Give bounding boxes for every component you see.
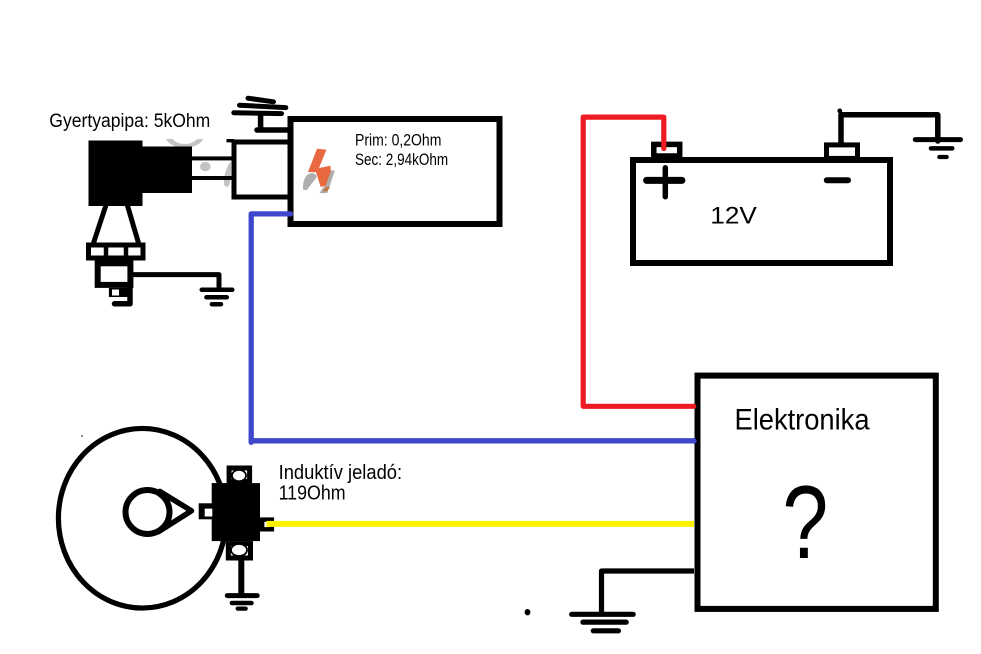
wire: blue coil to Elektronika bbox=[251, 214, 694, 441]
spark plug tip block bbox=[109, 288, 128, 297]
svg-text:Elektronika: Elektronika bbox=[735, 404, 871, 437]
wire: cap to coil terminal (bottom) bbox=[190, 176, 233, 180]
Elektronika box bbox=[698, 376, 936, 609]
flywheel magnet teardrop: circle bbox=[126, 490, 170, 534]
flywheel circle bbox=[58, 428, 226, 608]
spark plug tip notch bbox=[112, 290, 119, 296]
wire: sensor to ground bbox=[238, 558, 244, 594]
spark plug insulator left leg bbox=[94, 205, 107, 243]
svg-text:Induktív jeladó:: Induktív jeladó: bbox=[279, 461, 403, 484]
hex nut divider 2 bbox=[124, 244, 129, 258]
spark scribble horizontal to coil bbox=[257, 127, 290, 133]
spark plug cap (block B) bbox=[141, 147, 192, 194]
spark scribble stroke 3 bbox=[234, 110, 282, 116]
sensor top tab bbox=[229, 468, 250, 482]
sensor bottom tab bbox=[228, 544, 250, 558]
battery + terminal bbox=[654, 144, 680, 156]
sensor right tab bbox=[262, 520, 272, 530]
battery - terminal bbox=[827, 145, 858, 159]
ground (sensor) bar2 bbox=[232, 601, 252, 606]
gray watermark dot bbox=[200, 162, 211, 171]
wire: battery - to ground (black) bbox=[841, 115, 938, 143]
sensor body bbox=[212, 483, 260, 541]
ground (battery) bar3 bbox=[939, 155, 946, 159]
spark scribble vertical bbox=[258, 115, 264, 130]
coil icon: dark orange tail bbox=[323, 187, 331, 192]
spark plug electrode hook bbox=[115, 286, 131, 304]
spark plug insulator right leg bbox=[127, 204, 139, 243]
wire: plug body to ground bbox=[131, 275, 219, 288]
svg-text:?: ? bbox=[782, 464, 828, 580]
battery - sign bbox=[827, 177, 848, 183]
gray watermark teardrop bbox=[224, 161, 231, 186]
coil icon: gray right band bbox=[322, 170, 335, 193]
flywheel magnet teardrop: point bbox=[159, 491, 192, 531]
ground (sensor) bar1 bbox=[227, 593, 257, 598]
sensor bottom tab hole bbox=[231, 544, 247, 556]
spark plug cap (block A) bbox=[89, 141, 143, 207]
battery 12V box bbox=[633, 160, 890, 263]
ground (Elektronika) bar2 bbox=[583, 619, 626, 624]
ground (battery) bar1 bbox=[915, 137, 960, 142]
coil icon: gray right foot bbox=[319, 187, 326, 193]
ground (spark plug) bar2 bbox=[206, 295, 226, 300]
wire: cap to coil terminal (top) bbox=[190, 156, 233, 160]
ground (spark plug) bar3 bbox=[212, 302, 221, 307]
svg-text:119Ohm: 119Ohm bbox=[279, 482, 346, 505]
ground (spark plug) bar1 bbox=[202, 288, 233, 293]
wire: yellow sensor to Elektronika bbox=[267, 521, 695, 527]
ground (Elektronika) bar3 bbox=[593, 628, 618, 633]
svg-text:Sec: 2,94kOhm: Sec: 2,94kOhm bbox=[355, 151, 448, 169]
stray dot bbox=[525, 609, 531, 615]
sensor left notch bbox=[199, 503, 213, 519]
nub at wire corner bbox=[837, 109, 842, 114]
label: ? bbox=[782, 464, 828, 580]
svg-text:12V: 12V bbox=[710, 202, 757, 229]
ground (sensor) bar3 bbox=[238, 606, 246, 610]
wire: red battery + to Elektronika bbox=[583, 117, 694, 406]
ground (Elektronika) bar1 bbox=[572, 612, 634, 617]
coil icon: orange lightning bolt bbox=[308, 149, 331, 187]
svg-text:Gyertyapipa: 5kOhm: Gyertyapipa: 5kOhm bbox=[49, 111, 210, 132]
tiny speck bbox=[81, 435, 83, 437]
ground (battery) bar2 bbox=[931, 146, 952, 151]
tick at terminal box corner bbox=[227, 139, 235, 142]
spark plug hex nut bbox=[89, 245, 144, 258]
sensor top tab hole bbox=[232, 470, 246, 481]
ignition coil box bbox=[291, 119, 500, 224]
gray watermark crescent bbox=[166, 139, 204, 148]
spark scribble stroke 2 bbox=[240, 105, 286, 107]
spark scribble stroke 1 bbox=[248, 98, 274, 102]
svg-text:Prim: 0,2Ohm: Prim: 0,2Ohm bbox=[355, 131, 441, 149]
hex nut divider 1 bbox=[104, 244, 109, 258]
wire: Elektronika to ground bbox=[602, 571, 695, 612]
blue corner cap bbox=[249, 441, 254, 443]
battery + sign bbox=[647, 177, 682, 184]
coil HT terminal box bbox=[234, 142, 292, 197]
spark plug body bbox=[98, 263, 131, 285]
coil icon: gray left teardrop bbox=[303, 173, 317, 190]
